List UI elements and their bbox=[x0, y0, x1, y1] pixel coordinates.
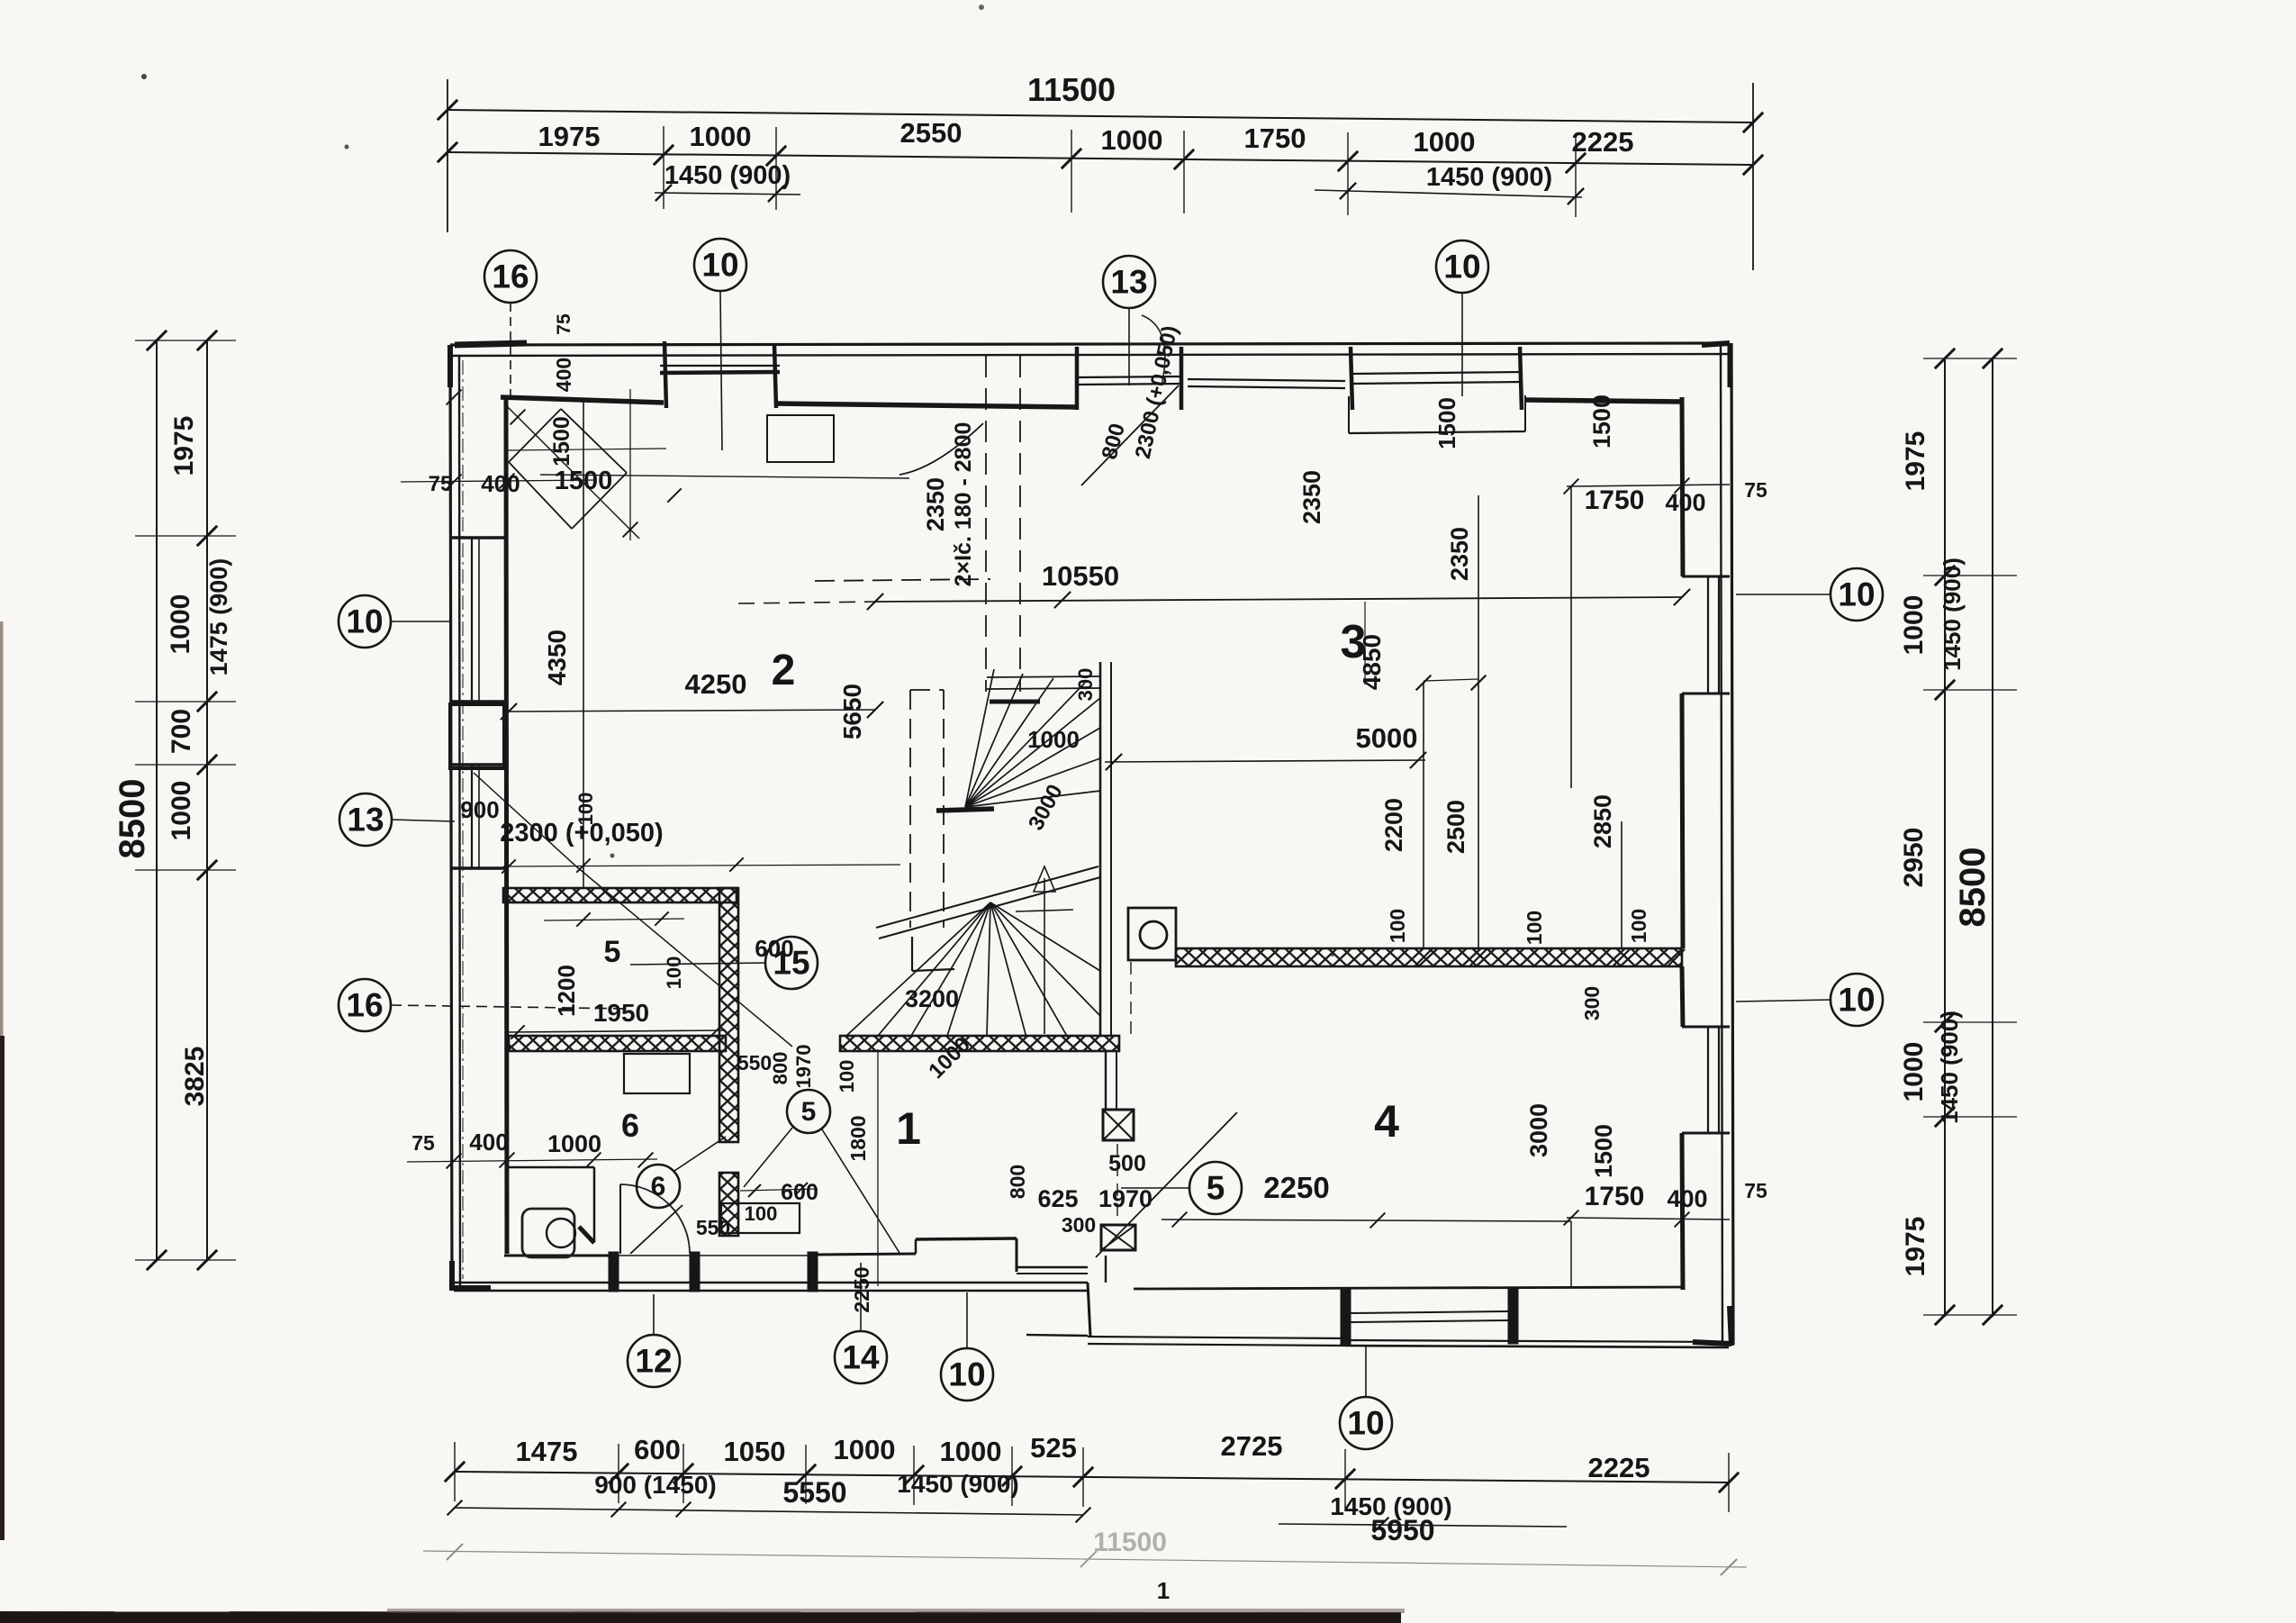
svg-text:300: 300 bbox=[1074, 668, 1097, 702]
svg-text:1000: 1000 bbox=[166, 594, 195, 655]
marker circle 5 bbox=[787, 1090, 830, 1133]
wall stub room1/room4 bbox=[1105, 1052, 1107, 1110]
svg-text:600: 600 bbox=[634, 1434, 681, 1465]
svg-text:1450 (900): 1450 (900) bbox=[1426, 163, 1552, 192]
outer wall right (double line) bbox=[1721, 343, 1722, 1345]
svg-text:5950: 5950 bbox=[1370, 1514, 1434, 1546]
svg-text:75: 75 bbox=[554, 313, 574, 335]
svg-text:5000: 5000 bbox=[1356, 722, 1418, 754]
svg-text:4350: 4350 bbox=[543, 630, 571, 685]
bottom wall left outer bbox=[454, 1282, 1088, 1283]
svg-text:1450 (900): 1450 (900) bbox=[1939, 558, 1966, 671]
svg-text:2250: 2250 bbox=[1263, 1171, 1329, 1204]
dimension chain right bbox=[1944, 358, 1946, 1317]
svg-text:2725: 2725 bbox=[1221, 1430, 1283, 1462]
svg-text:1975: 1975 bbox=[1901, 431, 1930, 492]
svg-text:8500: 8500 bbox=[113, 779, 152, 859]
marker circle 10 bbox=[694, 239, 746, 291]
marker circle 5 bbox=[1189, 1162, 1242, 1214]
svg-text:100: 100 bbox=[836, 1060, 858, 1093]
svg-text:1500: 1500 bbox=[555, 467, 613, 495]
svg-text:600: 600 bbox=[781, 1180, 818, 1205]
beam over (2x I) dashed bbox=[985, 356, 987, 692]
bottom wall left inner with door jambs bbox=[504, 1255, 609, 1257]
corner ink blobs bbox=[447, 345, 453, 387]
dim row 10550 bbox=[738, 602, 875, 603]
marker circle 16 bbox=[484, 250, 537, 303]
dim row bottom left 75/400/1000 bbox=[407, 1159, 657, 1162]
svg-text:2: 2 bbox=[772, 647, 796, 694]
top-left window dim 1500 bbox=[507, 449, 666, 450]
svg-text:100: 100 bbox=[745, 1202, 778, 1225]
svg-text:1750: 1750 bbox=[1244, 122, 1306, 154]
svg-text:10: 10 bbox=[1838, 576, 1875, 613]
dim row room2 4250 bbox=[509, 710, 875, 712]
svg-text:400: 400 bbox=[1665, 489, 1705, 516]
svg-text:1000: 1000 bbox=[690, 121, 752, 152]
svg-text:1475 (900): 1475 (900) bbox=[205, 558, 232, 676]
inner face right wall bbox=[1682, 397, 1683, 576]
porch step bbox=[1088, 1283, 1090, 1337]
svg-text:75: 75 bbox=[429, 472, 453, 496]
svg-text:625: 625 bbox=[1037, 1185, 1078, 1212]
svg-text:100: 100 bbox=[1386, 909, 1409, 943]
stair upper fan steps bbox=[936, 809, 994, 811]
svg-text:800: 800 bbox=[1006, 1165, 1029, 1199]
svg-text:1500: 1500 bbox=[1590, 1124, 1617, 1178]
dim top right 1750/400/75 bbox=[1567, 485, 1730, 486]
dim row room3 5000 bbox=[1105, 760, 1425, 762]
svg-text:75: 75 bbox=[411, 1131, 435, 1155]
svg-text:6: 6 bbox=[621, 1107, 639, 1144]
svg-text:400: 400 bbox=[1667, 1185, 1707, 1212]
svg-text:1450 (900): 1450 (900) bbox=[664, 161, 791, 190]
svg-text:400: 400 bbox=[552, 358, 575, 392]
svg-text:5650: 5650 bbox=[838, 684, 866, 739]
svg-text:1800: 1800 bbox=[846, 1115, 870, 1161]
svg-text:1975: 1975 bbox=[169, 416, 199, 476]
marker circle 14 bbox=[835, 1331, 887, 1383]
svg-text:900 (1450): 900 (1450) bbox=[594, 1471, 716, 1499]
svg-text:1750: 1750 bbox=[1585, 485, 1645, 515]
WC enclosure walls bbox=[507, 1166, 594, 1169]
svg-text:3825: 3825 bbox=[180, 1047, 210, 1107]
svg-text:100: 100 bbox=[663, 957, 685, 990]
svg-text:400: 400 bbox=[481, 470, 520, 497]
entry niche bbox=[916, 1238, 1017, 1239]
svg-text:1000: 1000 bbox=[1899, 1042, 1929, 1102]
svg-text:75: 75 bbox=[1744, 478, 1767, 502]
stair lower fan steps bbox=[912, 969, 954, 971]
cabinet room1 bbox=[721, 1203, 800, 1233]
marker circle 10 bbox=[1340, 1397, 1392, 1449]
svg-text:1000: 1000 bbox=[1899, 595, 1929, 656]
svg-text:2×Ič. 180 - 2800: 2×Ič. 180 - 2800 bbox=[951, 422, 976, 587]
hatched partition wall D (room3/room4) bbox=[1176, 948, 1682, 966]
svg-text:5: 5 bbox=[1207, 1170, 1225, 1207]
svg-text:1050: 1050 bbox=[724, 1436, 786, 1467]
svg-text:4850: 4850 bbox=[1358, 634, 1386, 690]
radiator niche below window A bbox=[767, 415, 834, 462]
svg-text:10: 10 bbox=[346, 603, 383, 640]
svg-text:1200: 1200 bbox=[553, 965, 580, 1017]
svg-text:1000: 1000 bbox=[167, 781, 196, 841]
washbasin room6 bbox=[624, 1054, 690, 1093]
bottom window/door jambs right bbox=[1341, 1289, 1351, 1346]
svg-text:11500: 11500 bbox=[1027, 71, 1116, 108]
svg-text:1970: 1970 bbox=[1098, 1185, 1153, 1212]
diagonal dim room5 bbox=[576, 866, 792, 1047]
marker circle 12 bbox=[628, 1335, 680, 1387]
marker circle 10 bbox=[941, 1348, 993, 1401]
svg-text:1000: 1000 bbox=[547, 1130, 601, 1157]
dimension top sub-chain 1450(900) right bbox=[1315, 190, 1582, 197]
marker circle 13 bbox=[339, 793, 392, 846]
svg-text:600: 600 bbox=[755, 935, 793, 962]
svg-text:1450 (900): 1450 (900) bbox=[897, 1470, 1018, 1498]
svg-text:100: 100 bbox=[1523, 911, 1546, 945]
scan specks bbox=[141, 74, 147, 79]
dim row 75/400 top-left bbox=[401, 480, 594, 482]
svg-text:13: 13 bbox=[347, 802, 384, 839]
svg-text:1: 1 bbox=[896, 1103, 921, 1154]
entry door swing diagonal bbox=[1096, 1112, 1237, 1257]
hatched partition wall B right (hall/room1) bbox=[840, 1036, 1119, 1051]
svg-text:1000: 1000 bbox=[834, 1434, 896, 1465]
svg-text:550: 550 bbox=[696, 1216, 730, 1239]
top-left corner diamond (1500 diagonal) bbox=[509, 409, 561, 462]
dimension chain left bbox=[156, 340, 158, 1260]
hatched partition wall B left (room5/room6) bbox=[509, 1036, 726, 1051]
svg-text:5: 5 bbox=[604, 935, 621, 969]
porch pillar with X brace upper bbox=[1103, 1110, 1134, 1140]
svg-text:1450 (900): 1450 (900) bbox=[1936, 1011, 1963, 1124]
svg-text:3000: 3000 bbox=[1525, 1103, 1552, 1157]
svg-text:16: 16 bbox=[346, 987, 383, 1024]
svg-text:5550: 5550 bbox=[782, 1476, 846, 1509]
stair dashed flight above bbox=[815, 579, 990, 581]
dimension chain top overall 11500 bbox=[447, 110, 1753, 122]
svg-text:10550: 10550 bbox=[1042, 560, 1119, 592]
svg-text:2950: 2950 bbox=[1899, 828, 1929, 888]
svg-text:1500: 1500 bbox=[1433, 397, 1460, 449]
svg-text:16: 16 bbox=[492, 258, 529, 295]
marker circle 13 bbox=[1103, 256, 1155, 308]
svg-text:800: 800 bbox=[769, 1052, 791, 1085]
left wall axis dash-dot bbox=[462, 360, 464, 1279]
svg-text:10: 10 bbox=[1347, 1405, 1384, 1442]
svg-text:1: 1 bbox=[1157, 1577, 1170, 1604]
svg-text:8500: 8500 bbox=[1953, 848, 1993, 928]
pilaster block left wall bbox=[450, 704, 504, 768]
WC door leaf bbox=[630, 1205, 682, 1254]
dimension chain top segments bbox=[447, 152, 1753, 165]
svg-text:11500: 11500 bbox=[1093, 1528, 1167, 1557]
stair enclosure wall right bbox=[1099, 662, 1102, 1036]
marker circle 16 bbox=[339, 979, 391, 1031]
window top C bbox=[1352, 372, 1522, 374]
svg-text:2350: 2350 bbox=[1298, 470, 1325, 524]
svg-text:1500: 1500 bbox=[1588, 394, 1615, 449]
svg-text:100: 100 bbox=[1627, 909, 1650, 943]
inner face top wall bbox=[501, 397, 664, 403]
outer wall left (double line) bbox=[450, 345, 452, 1290]
svg-text:550: 550 bbox=[737, 1051, 772, 1074]
dimension chain bottom overall (faint) bbox=[423, 1551, 1747, 1567]
stair walk line with arrow bbox=[1044, 878, 1045, 1034]
bottom wall right inner bbox=[1134, 1287, 1682, 1289]
svg-text:4: 4 bbox=[1374, 1096, 1399, 1147]
svg-text:5: 5 bbox=[801, 1097, 817, 1127]
svg-text:525: 525 bbox=[1030, 1432, 1077, 1464]
svg-text:400: 400 bbox=[469, 1129, 508, 1156]
page edge shadow bottom bbox=[0, 1611, 1401, 1623]
svg-text:12: 12 bbox=[635, 1343, 672, 1380]
svg-text:2200: 2200 bbox=[1380, 798, 1407, 852]
marker circle 10 bbox=[339, 595, 391, 648]
dimension chain bottom second row bbox=[455, 1508, 1083, 1515]
svg-text:10: 10 bbox=[948, 1356, 985, 1393]
marker circle 10 bbox=[1830, 974, 1883, 1026]
svg-text:1500: 1500 bbox=[549, 416, 574, 467]
svg-text:10: 10 bbox=[701, 247, 738, 284]
svg-text:2225: 2225 bbox=[1588, 1452, 1650, 1483]
page edge shadow left bbox=[0, 621, 4, 1045]
WC fixtures bbox=[522, 1209, 574, 1257]
svg-text:2350: 2350 bbox=[1446, 527, 1473, 581]
stair stringer double diagonal bbox=[876, 866, 1098, 928]
chimney box with flue bbox=[1128, 908, 1176, 960]
dimension chain bottom segments bbox=[455, 1472, 1729, 1482]
svg-text:1000: 1000 bbox=[1027, 726, 1080, 753]
svg-text:300: 300 bbox=[1062, 1213, 1096, 1237]
window right upper bbox=[1707, 576, 1709, 694]
inner face left wall bbox=[506, 397, 507, 1254]
stair upper landing edges bbox=[987, 676, 1100, 677]
bottom wall right outer bbox=[1345, 1340, 1729, 1342]
left mid small dim row bbox=[503, 865, 900, 866]
marker circle 6 bbox=[637, 1165, 680, 1208]
hatched partition wall vertical lower bbox=[719, 1173, 738, 1236]
scanner blob top-left bbox=[455, 343, 527, 345]
svg-text:3200: 3200 bbox=[905, 985, 959, 1012]
svg-text:2350: 2350 bbox=[922, 477, 949, 531]
svg-text:1000: 1000 bbox=[1101, 124, 1163, 156]
svg-text:300: 300 bbox=[1580, 986, 1604, 1020]
entry door swing top bbox=[1081, 385, 1179, 485]
entrance door recess top bbox=[1077, 376, 1181, 377]
svg-text:900: 900 bbox=[460, 796, 499, 823]
svg-text:2850: 2850 bbox=[1589, 794, 1616, 848]
svg-text:1750: 1750 bbox=[1585, 1182, 1645, 1211]
svg-text:4250: 4250 bbox=[685, 668, 747, 700]
svg-text:100: 100 bbox=[574, 793, 597, 826]
svg-text:1950: 1950 bbox=[593, 999, 649, 1027]
svg-text:700: 700 bbox=[167, 709, 196, 754]
svg-text:1000: 1000 bbox=[940, 1436, 1002, 1467]
room6 door arc bbox=[620, 1184, 690, 1254]
svg-text:1000: 1000 bbox=[1414, 126, 1476, 158]
window right lower bbox=[1707, 1027, 1709, 1133]
svg-text:2550: 2550 bbox=[900, 117, 963, 149]
dimension top sub-chain 1450(900) left bbox=[655, 193, 800, 195]
svg-text:10: 10 bbox=[1838, 982, 1875, 1019]
svg-text:2500: 2500 bbox=[1442, 800, 1469, 854]
svg-text:2225: 2225 bbox=[1572, 126, 1634, 158]
svg-text:1975: 1975 bbox=[538, 121, 601, 152]
svg-text:500: 500 bbox=[1108, 1151, 1146, 1176]
svg-text:10: 10 bbox=[1443, 249, 1480, 286]
svg-text:1975: 1975 bbox=[1901, 1217, 1930, 1277]
window left lower bbox=[471, 765, 473, 868]
room3 vertical dim lines bbox=[1423, 683, 1424, 948]
porch pillar with X brace lower bbox=[1101, 1225, 1135, 1250]
marker circle 15 bbox=[765, 937, 818, 989]
svg-text:1970: 1970 bbox=[792, 1045, 815, 1089]
marker circle 10 bbox=[1830, 568, 1883, 621]
window left upper bbox=[471, 538, 473, 702]
svg-text:2250: 2250 bbox=[850, 1266, 873, 1312]
window top A sill block bbox=[660, 365, 780, 367]
misc ticks top-left bbox=[447, 390, 462, 405]
svg-text:6: 6 bbox=[651, 1172, 666, 1201]
svg-text:14: 14 bbox=[842, 1339, 880, 1376]
svg-text:1475: 1475 bbox=[516, 1436, 578, 1467]
marker circle 10 bbox=[1436, 240, 1488, 293]
hatched partition wall A (room2/room5) bbox=[503, 888, 737, 902]
hatched partition wall vertical (room5-bath/hall) bbox=[719, 888, 738, 1142]
outer wall top (double line) bbox=[450, 343, 1729, 345]
svg-text:75: 75 bbox=[1744, 1179, 1767, 1202]
svg-text:13: 13 bbox=[1110, 264, 1147, 301]
